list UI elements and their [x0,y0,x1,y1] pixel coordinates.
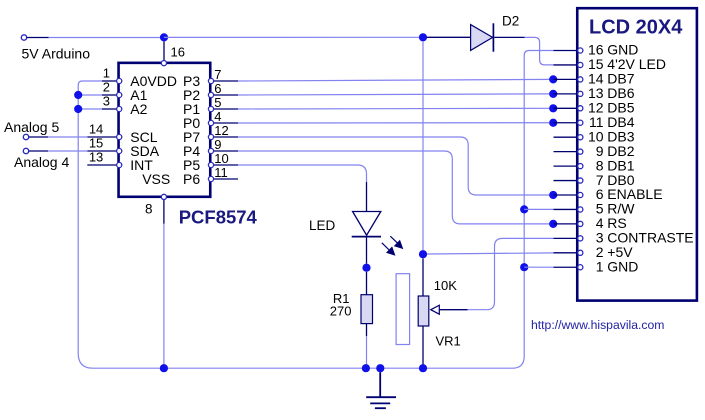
wire VR1 wiper [439,309,467,311]
ground [366,372,396,408]
pin 6 stub PCF [213,94,238,96]
LED light arrows [382,236,403,255]
svg-text:11: 11 [214,165,228,180]
pin 1 stub LCD [554,266,578,268]
pin 5 stub LCD [554,208,578,210]
wire LED cathode to junction [366,237,368,264]
svg-text:8: 8 [145,202,153,217]
IC LCD 20X4 body [577,8,697,300]
pin circles PCF8574 [117,61,214,200]
wire P3 to LCD DB7 [238,79,549,81]
svg-text:15: 15 [89,136,103,151]
svg-text:D2: D2 [502,13,519,28]
svg-text:4: 4 [214,109,221,124]
pin 15 stub LCD [554,64,578,66]
wire wiper to CONTRASTE [468,238,554,309]
wire 5V rail to first junction [49,37,164,39]
svg-text:6: 6 [214,81,221,96]
potentiometer track outline [396,274,410,345]
wire GND net (pin16, gnd bus, bottom rail, left rail, A0) [78,51,553,369]
wire VR1 top lead [422,258,424,296]
wire P0 to LCD DB4 [238,122,549,124]
wire A2 tap [78,108,102,110]
svg-text:A2: A2 [130,101,147,117]
wire VSS pin8 drop navy [163,198,165,223]
pin 8 stub LCD [554,165,578,167]
pin 3 stub PCF [102,108,117,110]
pin 9 stub LCD [554,151,578,153]
svg-text:PCF8574: PCF8574 [179,207,258,228]
resistor R1 [361,295,373,324]
potentiometer VR1 [418,296,429,326]
svg-text:P6: P6 [183,171,200,187]
svg-text:14: 14 [89,122,103,137]
wire P1 to LCD DB5 [238,107,549,110]
pin circles LCD [578,48,583,270]
svg-text:12: 12 [214,123,228,138]
svg-text:7: 7 [214,67,221,82]
wire VDD pin 16 drop [163,42,165,61]
wire Analog5 to SCL [48,136,87,138]
wire P5 to LED [238,165,367,182]
wire +5V vertical rail [422,41,424,250]
node junction DB4 [549,119,557,127]
node junction +5V/VR1 [419,250,427,258]
wire R/W to GND [524,208,553,210]
svg-text:1: 1 [596,258,604,274]
wire VR1 bottom lead [422,326,424,366]
pin 1 stub PCF [102,80,117,82]
pin 2 stub LCD [554,252,578,254]
wire Analog4 to SDA [48,150,87,152]
wire P4 to RS [238,151,549,224]
svg-text:5V Arduino: 5V Arduino [22,46,91,62]
svg-text:2: 2 [103,80,110,95]
svg-text:LED: LED [309,218,336,233]
node junction GND/R-W [520,205,528,213]
terminal Analog 5 [23,134,28,139]
pin 11 stub LCD [554,122,578,124]
svg-text:270: 270 [330,304,352,319]
wire diode to LCD pin 15 [525,37,554,65]
node junction 5V/VDD [160,33,168,41]
pin 7 stub LCD [554,180,578,182]
pin 13 stub PCF [87,164,117,166]
wire junction to R1 [366,272,368,295]
pin 2 stub PCF [102,94,117,96]
node junction ENABLE [549,191,557,199]
LED D1 symbol [353,212,381,236]
pin 13 stub LCD [554,93,578,95]
wire Analog4 stub [29,150,48,152]
pin 15 stub PCF [87,150,117,152]
wire 5V rail to diode junction [164,36,423,38]
svg-text:10: 10 [214,151,228,166]
terminal Analog 4 [23,148,28,153]
svg-text:VR1: VR1 [436,333,461,348]
wire P7 to ENABLE [238,137,549,195]
op-amp/IC PCF8574 body [119,63,211,197]
svg-text:LCD 20X4: LCD 20X4 [589,17,683,39]
wire +5V to LCD pin 2 [427,253,553,254]
pin 3 stub LCD [554,237,578,239]
pin 14 stub LCD [554,78,578,80]
diode D2 [471,25,493,51]
pin 7 stub PCF [213,80,238,82]
node junction DB6 [549,90,557,98]
node junction RS [549,220,557,228]
svg-text:13: 13 [89,150,103,165]
svg-text:http://www.hispavila.com: http://www.hispavila.com [531,318,664,332]
svg-text:Analog 5: Analog 5 [4,119,59,135]
pin 6 stub LCD [554,194,578,196]
node junction A1 [74,91,82,99]
pin 9 stub PCF [213,150,238,152]
wire VSS pin8 to gnd rail [163,224,165,366]
wire R1 bottom lead [366,324,368,336]
svg-text:1: 1 [103,66,110,81]
wire P2 to LCD DB6 [238,94,549,95]
node junction DB5 [549,104,557,112]
pin 10 stub PCF [213,164,238,166]
node junction LED/R1 [362,264,370,272]
node junction gnd stem [376,364,384,372]
svg-text:Analog 4: Analog 4 [14,154,69,170]
VR1 wiper arrow [431,305,440,314]
svg-text:9: 9 [214,137,221,152]
wire 5V terminal stub [27,37,49,39]
svg-text:10K: 10K [434,278,457,293]
pin 4 stub PCF [213,122,238,124]
node junction GND/pin1 [520,263,528,271]
node junction DB7 [549,75,557,83]
pin 10 stub LCD [554,136,578,138]
svg-text:16: 16 [171,45,185,60]
wire A1 tap [78,94,102,96]
svg-text:3: 3 [103,94,110,109]
pin 5 stub PCF [213,108,238,110]
wire Analog5 stub [29,136,48,138]
wire LCD pin1 to GND [524,266,553,268]
pin 4 stub LCD [554,223,578,225]
pin 14 stub PCF [87,136,117,138]
terminal 5V Arduino [21,35,26,40]
svg-text:5: 5 [214,95,221,110]
pin 12 stub PCF [213,136,238,138]
svg-text:VSS: VSS [142,171,170,187]
wire diode cathode [494,36,524,38]
node junction R1/gnd rail [362,364,370,372]
svg-text:GND: GND [607,258,638,274]
pin 16 stub LCD [554,50,578,52]
node junction VR1/gnd rail [419,364,427,372]
wire diode anode [427,36,470,38]
node junction 5V/+5V rail [419,33,427,41]
node junction VSS/gnd rail [160,364,168,372]
pin 11 stub PCF [213,178,238,180]
node junction A2 [74,105,82,113]
pin 12 stub LCD [554,107,578,109]
